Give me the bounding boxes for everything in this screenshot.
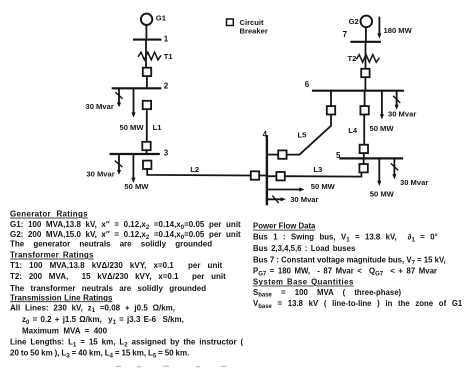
notes generator ratings <box>10 210 241 249</box>
svg-text:50 MW: 50 MW <box>124 182 149 191</box>
circuit breaker bus5-L3 <box>359 164 367 172</box>
svg-text:L4: L4 <box>348 126 358 135</box>
svg-text:Transformer Ratings: Transformer Ratings <box>10 251 94 260</box>
svg-text:30 Mvar: 30 Mvar <box>388 110 416 119</box>
load 50 MW at bus 3 <box>132 154 134 178</box>
load 50 MW at bus 6 <box>381 91 383 115</box>
svg-text:7: 7 <box>343 30 348 39</box>
load 30 Mvar at bus 3 <box>118 154 120 171</box>
bus 5 <box>341 157 403 159</box>
svg-text:6: 6 <box>305 80 310 89</box>
svg-text:System Base Quantities: System Base Quantities <box>253 278 354 287</box>
wire breaker to bus 6 <box>364 77 366 91</box>
circuit breaker bus3-L2 <box>143 161 151 169</box>
circuit breaker bus2-L1 <box>143 101 151 109</box>
svg-text:30 Mvar: 30 Mvar <box>400 178 428 187</box>
svg-text:50 MW: 50 MW <box>370 124 395 133</box>
load 50 MW at bus 5 <box>378 158 380 181</box>
circuit breaker bus6-L4 <box>360 106 368 114</box>
svg-text:Transmission Line Ratings: Transmission Line Ratings <box>10 293 113 302</box>
svg-text:The generator neutrals are sol: The generator neutrals are solidly groun… <box>10 240 212 249</box>
svg-text:30 Mvar: 30 Mvar <box>86 102 114 111</box>
svg-text:30 Mvar: 30 Mvar <box>86 169 114 178</box>
circuit breaker bus4-L3 <box>276 172 284 180</box>
circuit breaker L5-bus6 <box>327 106 335 114</box>
svg-text:The transformer neutrals are s: The transformer neutrals are solidly gro… <box>10 284 206 293</box>
wire line L5 <box>287 115 331 155</box>
svg-text:Breaker: Breaker <box>240 26 268 35</box>
circuit breaker L4-bus5 <box>360 145 368 153</box>
svg-text:30 Mvar: 30 Mvar <box>290 195 318 204</box>
bus 7 <box>351 41 380 43</box>
svg-text:50 MW: 50 MW <box>370 189 395 198</box>
circuit breaker G1-bus2 <box>143 68 151 76</box>
wire breaker to bus 6 <box>330 91 332 106</box>
circuit breaker T2-bus6 <box>361 69 369 77</box>
wire bus 1 to breaker via T1 <box>145 40 147 68</box>
svg-text:Maximum MVA = 400: Maximum MVA = 400 <box>22 326 108 335</box>
load 50 MW at bus 4 <box>267 189 300 191</box>
load 30 Mvar at bus 4 <box>267 198 281 200</box>
circuit breaker L1-bus3 <box>142 142 150 150</box>
notes transformer ratings <box>10 251 226 293</box>
svg-text:T2: 200 MVA, 15 kVΔ/230 kVY,: T2: 200 MVA, 15 kVΔ/230 kVY, x=0.1 per u… <box>10 272 226 281</box>
svg-text:Generator Ratings: Generator Ratings <box>10 210 88 219</box>
svg-text:Power Flow Data: Power Flow Data <box>253 222 316 231</box>
bus 6 <box>313 90 403 92</box>
svg-text:1: 1 <box>164 34 169 43</box>
wire line L1 <box>146 109 148 142</box>
wire breaker to bus 6 <box>364 91 366 106</box>
wire bus 4 to L3 breaker <box>267 175 277 177</box>
faint cut-off scan marks at bottom edge <box>116 365 226 368</box>
wire line L4 <box>363 115 365 145</box>
load 30 Mvar at bus 6 <box>396 91 398 106</box>
legend circuit breaker symbol <box>227 19 234 26</box>
circuit breaker L2-bus4 <box>251 171 259 179</box>
svg-text:G2: G2 <box>349 17 359 26</box>
generator G2 <box>361 16 373 28</box>
arrow 180 MW at G2 <box>378 18 380 35</box>
wire line L3 <box>285 172 362 176</box>
svg-text:3: 3 <box>164 148 169 157</box>
svg-text:L3: L3 <box>313 165 322 174</box>
wire bus 7 to breaker via T2 <box>365 42 367 69</box>
bus 4 <box>266 136 268 204</box>
load 30 Mvar at bus 2 <box>118 88 120 103</box>
wire breaker to bus 2 <box>146 76 148 88</box>
circuit breaker bus4-L5 <box>278 150 286 158</box>
svg-text:L2: L2 <box>190 165 199 174</box>
notes transmission line ratings <box>10 293 244 359</box>
svg-text:T2: T2 <box>348 54 357 63</box>
svg-text:4: 4 <box>263 130 268 139</box>
wire breaker to bus 4 <box>259 175 267 177</box>
svg-text:180 MW: 180 MW <box>384 26 413 35</box>
bus 3 <box>111 153 159 155</box>
wire breaker to bus 5 <box>363 158 365 164</box>
wire G1 to bus 1 <box>145 25 147 40</box>
svg-text:L5: L5 <box>298 131 308 140</box>
generator G1 <box>141 14 152 25</box>
wire bus 4 to L5 breaker <box>267 154 278 156</box>
svg-text:G1: G1 <box>156 14 167 23</box>
transformer T1 <box>139 52 161 60</box>
svg-text:5: 5 <box>336 151 341 160</box>
wire line L2 <box>147 169 251 176</box>
bus 2 <box>113 87 160 89</box>
svg-text:2: 2 <box>164 82 169 91</box>
transformer T2 <box>357 55 379 63</box>
svg-text:Bus 2,3,4,5,6 : Load buses: Bus 2,3,4,5,6 : Load buses <box>253 244 356 253</box>
svg-text:T1: T1 <box>164 52 174 61</box>
load 50 MW at bus 2 <box>133 88 135 113</box>
svg-text:50 MW: 50 MW <box>311 182 336 191</box>
svg-text:L1: L1 <box>153 123 163 132</box>
wire breaker to bus 3 <box>146 150 148 154</box>
svg-text:50 MW: 50 MW <box>120 123 145 132</box>
load 30 Mvar at bus 5 <box>393 158 395 175</box>
wire breaker to bus 5 lower stub <box>363 153 365 158</box>
svg-text:T1: 100 MVA,13.8 kVΔ/230 kVY,: T1: 100 MVA,13.8 kVΔ/230 kVY, x=0.1 per … <box>10 261 223 270</box>
wire G2 to bus 7 <box>365 27 367 42</box>
notes system base quantities <box>253 278 463 310</box>
bus 1 <box>134 39 160 41</box>
notes power flow data <box>253 222 446 278</box>
